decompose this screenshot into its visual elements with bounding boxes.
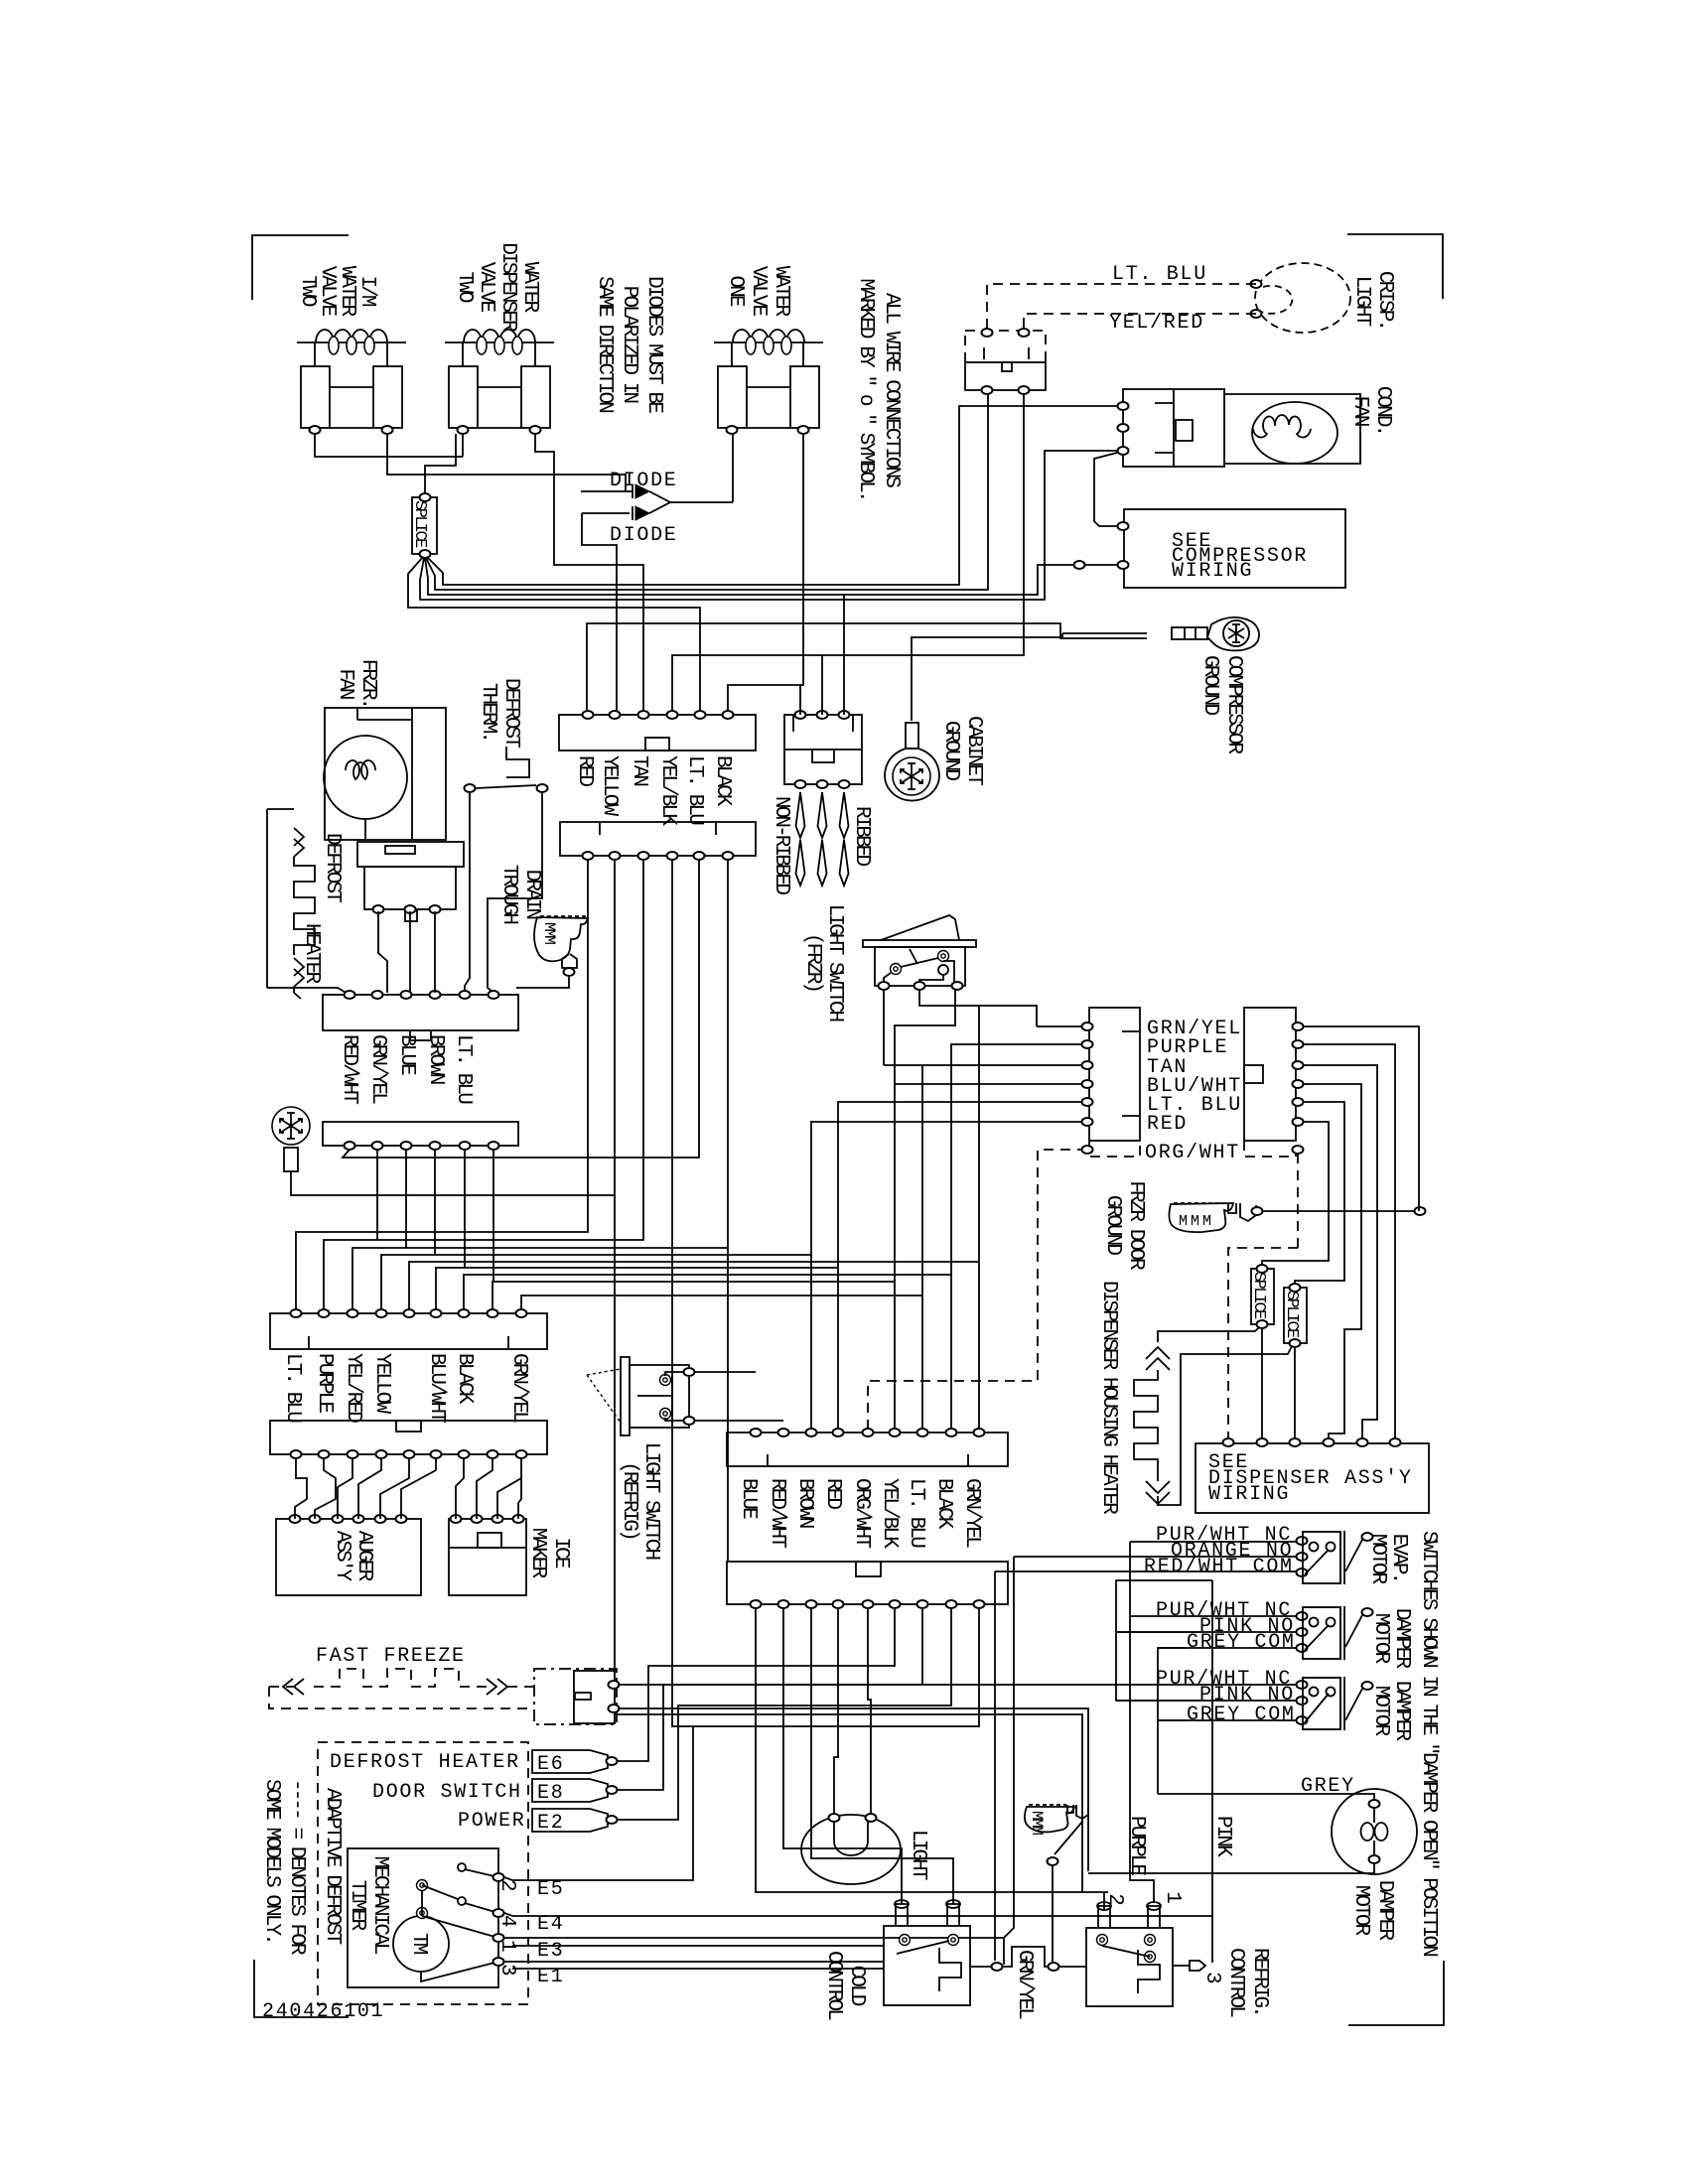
wires refrig control stubs up bbox=[1130, 1685, 1154, 1902]
diode output junction bbox=[649, 491, 733, 513]
connector C1 upper box bbox=[559, 715, 756, 751]
valve V2 terminals bbox=[458, 426, 469, 434]
svg-text:BLU/WHT: BLU/WHT bbox=[425, 1353, 448, 1423]
svg-text:YEL/BLK: YEL/BLK bbox=[878, 1478, 901, 1549]
refrig light switch symbol bbox=[587, 1357, 695, 1435]
auger assy box bbox=[276, 1519, 421, 1595]
wire GREY run bbox=[1158, 1794, 1374, 1804]
crisper connector body bbox=[965, 362, 1046, 390]
svg-text:RED/WHT: RED/WHT bbox=[338, 1034, 360, 1104]
wire sw left columns bbox=[1004, 1557, 1014, 1965]
heater chevrons bottom bbox=[1146, 1481, 1170, 1504]
wire PURPLE row bbox=[1303, 1044, 1395, 1439]
svg-text:DEFROSTTHERM.: DEFROSTTHERM. bbox=[477, 678, 522, 748]
wire relay t2 run bbox=[618, 1708, 1088, 1871]
wire E3 aux run bbox=[512, 1945, 884, 1947]
valve V2 body bbox=[463, 342, 535, 366]
wire splice2 to dispenser housing heater bbox=[1158, 1327, 1259, 1342]
svg-text:MMM: MMM bbox=[540, 922, 558, 944]
connector C6 box bbox=[270, 1421, 547, 1454]
svg-text:MMM: MMM bbox=[1179, 1213, 1214, 1230]
ground screw at strip bbox=[272, 1107, 310, 1145]
svg-text:GRN/YEL: GRN/YEL bbox=[507, 1353, 530, 1423]
svg-text:DEFROST HEATER: DEFROST HEATER bbox=[330, 1751, 520, 1774]
wire E2 run bbox=[618, 1608, 951, 1820]
wire E1 aux run bbox=[512, 1968, 884, 1970]
wire C1 lower pin2 ground bus bbox=[614, 860, 616, 1671]
svg-text:POWER: POWER bbox=[458, 1810, 526, 1833]
wire valve3R branch to C1 pin6 bbox=[728, 586, 803, 712]
svg-text:DAMPERMOTOR: DAMPERMOTOR bbox=[1369, 1681, 1413, 1742]
wire frzr switch drops bbox=[884, 989, 1037, 1084]
wire defrost therm to strip bbox=[465, 792, 542, 993]
wire diode output to valve3-left bbox=[732, 434, 734, 502]
spade E2 bbox=[532, 1809, 608, 1832]
freezer light switch symbol bbox=[863, 915, 976, 990]
wire BLU/WHT row bbox=[1303, 1084, 1361, 1439]
svg-text:YEL/RED: YEL/RED bbox=[342, 1353, 364, 1423]
svg-text:BLACK: BLACK bbox=[453, 1353, 476, 1405]
wire bus into connector C2 pins bbox=[800, 595, 844, 715]
svg-text:DEFROST: DEFROST bbox=[321, 833, 344, 902]
svg-text:LT. BLU: LT. BLU bbox=[905, 1478, 927, 1548]
defrost heater element bbox=[267, 809, 294, 988]
svg-text:YELLOW: YELLOW bbox=[370, 1353, 393, 1415]
wire splice fan B bbox=[426, 389, 988, 590]
strip connector upper box bbox=[323, 995, 518, 1030]
svg-text:DAMPERMOTOR: DAMPERMOTOR bbox=[1369, 1608, 1413, 1670]
svg-text:DRAINTROUGH: DRAINTROUGH bbox=[497, 865, 543, 924]
svg-text:BLUE: BLUE bbox=[737, 1478, 760, 1519]
dashed ORG/WHT left run bbox=[868, 1150, 1087, 1430]
svg-text:E5: E5 bbox=[537, 1878, 564, 1901]
wire b2 to cold control 1 bbox=[783, 1608, 902, 1904]
crisper connector dashed box bbox=[965, 331, 1046, 362]
svg-text:ORG/WHT: ORG/WHT bbox=[1145, 1142, 1240, 1164]
wire E5 run bbox=[504, 1608, 979, 1880]
wire relay t1 run bbox=[618, 1684, 1130, 1686]
svg-text:RED: RED bbox=[821, 1478, 844, 1509]
svg-text:DIODES MUST BEPOLARIZED INSAME: DIODES MUST BEPOLARIZED INSAME DIRECTION bbox=[593, 276, 665, 413]
wire 9pin t8 run bbox=[492, 1282, 895, 1310]
svg-text:CABINETGROUND: CABINETGROUND bbox=[939, 716, 985, 785]
svg-text:DISPENSER HOUSING HEATER: DISPENSER HOUSING HEATER bbox=[1097, 1281, 1120, 1515]
svg-text:TM: TM bbox=[407, 1933, 430, 1955]
svg-text:TAN: TAN bbox=[628, 755, 650, 785]
drain trough heater MMM bbox=[534, 916, 588, 976]
border corner mark top-right bbox=[1347, 234, 1443, 299]
wire strip2 pins drop to band bbox=[377, 1150, 493, 1282]
svg-text:YELLOW: YELLOW bbox=[598, 755, 621, 817]
wire heater bottom to strip1 t1 bbox=[267, 988, 350, 995]
junction circle on compressor wire bbox=[1074, 561, 1085, 569]
svg-text:RED/WHT: RED/WHT bbox=[766, 1478, 788, 1548]
compressor ground ring terminal bbox=[1172, 617, 1259, 650]
damper motor coil bbox=[1332, 1789, 1417, 1874]
wire 9pin t9 run bbox=[521, 1296, 922, 1310]
wire C1 lower pin6 to 9pin t3 bbox=[352, 860, 728, 1562]
wires C6 to auger and ice maker bbox=[295, 1458, 307, 1519]
svg-text:RED: RED bbox=[1147, 1113, 1188, 1136]
wire E3 run bbox=[504, 1937, 1004, 1939]
wire C1 lower pin3 to 9pin t2 bbox=[324, 860, 643, 1310]
svg-text:BLACK: BLACK bbox=[711, 755, 734, 807]
svg-text:GRN/YEL: GRN/YEL bbox=[1013, 1950, 1036, 2019]
wire splice fan D bbox=[420, 451, 1120, 600]
svg-text:LT. BLU: LT. BLU bbox=[1112, 263, 1207, 286]
svg-text:RED: RED bbox=[573, 755, 596, 786]
right door box bbox=[1244, 1008, 1296, 1141]
svg-text:BLUE: BLUE bbox=[395, 1034, 418, 1075]
svg-text:E2: E2 bbox=[537, 1812, 564, 1835]
wire splice fan E bbox=[408, 557, 700, 712]
dashed ADAPTIVE DEFROST box bbox=[318, 1742, 528, 2004]
svg-text:GREY: GREY bbox=[1301, 1775, 1355, 1798]
freezer fan body bbox=[364, 867, 456, 909]
svg-text:CRISP.LIGHT: CRISP.LIGHT bbox=[1350, 271, 1396, 329]
svg-text:GRN/YEL: GRN/YEL bbox=[366, 1034, 389, 1104]
splice S1 box bbox=[412, 497, 437, 554]
connector C3 box bbox=[727, 1433, 1008, 1466]
svg-text:LT. BLU: LT. BLU bbox=[683, 755, 706, 825]
timer motor TM bbox=[393, 1916, 449, 1972]
ice maker box bbox=[449, 1519, 526, 1595]
wire b4 to light L bbox=[834, 1608, 838, 1814]
wire dashed LT.BLU crisper bbox=[987, 284, 1256, 333]
fast freeze dashed element bbox=[269, 1669, 534, 1687]
svg-text:GREY COM: GREY COM bbox=[1187, 1631, 1296, 1654]
freezer fan box bbox=[325, 708, 446, 840]
svg-text:SPLICE: SPLICE bbox=[1249, 1272, 1268, 1319]
refrig control box bbox=[1086, 1928, 1173, 2006]
cond fan connector box bbox=[1123, 389, 1224, 467]
wire valve1-right to diode D1 bbox=[387, 434, 633, 491]
ribbed wire arrows bbox=[796, 792, 849, 886]
wire E4 run bbox=[504, 1913, 1212, 1916]
svg-text:BROWN: BROWN bbox=[424, 1034, 447, 1084]
valve V2 coil bbox=[445, 341, 554, 343]
wire E6 run bbox=[618, 1608, 895, 1761]
svg-text:REFRIG.CONTROL: REFRIG.CONTROL bbox=[1224, 1948, 1271, 2017]
wire RED row to splice2 bbox=[1262, 1122, 1329, 1266]
wire b1 to refrig control 2 bbox=[756, 1608, 1108, 1911]
dashed ORG/WHT right run bbox=[1228, 1154, 1298, 1439]
wire crisper-R return to connector C1 pin4 bbox=[672, 389, 1024, 712]
valve V1 terminals bbox=[310, 426, 321, 434]
svg-text:MMM: MMM bbox=[1028, 1811, 1046, 1835]
wire relay t2 aux run bbox=[617, 1714, 1082, 1892]
valve V3 body bbox=[732, 342, 803, 366]
wire splice-top to valve2-left bbox=[425, 434, 456, 493]
svg-text:E3: E3 bbox=[537, 1940, 564, 1963]
svg-text:EVAP.MOTOR: EVAP.MOTOR bbox=[1366, 1534, 1410, 1585]
wire splice fan A bbox=[427, 406, 1120, 585]
wire GRN/YEL row to ground junction bbox=[1303, 1026, 1419, 1211]
svg-text:DIODE: DIODE bbox=[610, 524, 678, 547]
svg-text:LT. BLU: LT. BLU bbox=[281, 1353, 304, 1423]
svg-text:YEL/RED: YEL/RED bbox=[1109, 312, 1204, 335]
svg-text:LIGHT: LIGHT bbox=[907, 1830, 929, 1880]
heater element bbox=[1134, 1370, 1158, 1469]
svg-text:ADAPTIVE DEFROST: ADAPTIVE DEFROST bbox=[321, 1788, 344, 1945]
wires freezer fan to strip bbox=[378, 911, 435, 993]
freezer fan motor circle bbox=[324, 736, 407, 819]
wire valve2-right to connector C1 pin3 bbox=[535, 434, 643, 712]
wire dashed YEL/RED crisper bbox=[1024, 314, 1256, 333]
fast freeze relay box bbox=[534, 1669, 617, 1724]
wire left box rows to connector C3 bbox=[811, 1006, 1087, 1430]
refrig right terminal 3 bbox=[1173, 1965, 1190, 1967]
connector C5 box bbox=[270, 1313, 547, 1349]
diode D1 bbox=[581, 484, 633, 498]
svg-text:PURPLE: PURPLE bbox=[313, 1353, 336, 1414]
svg-text:RED/WHT COM: RED/WHT COM bbox=[1144, 1556, 1294, 1578]
wire diode D2 to connector C1 pin2 bbox=[582, 513, 617, 712]
wire cold control out bbox=[970, 1947, 1086, 1967]
svg-text:AUGERASS'Y: AUGERASS'Y bbox=[331, 1531, 375, 1582]
wire drain trough down bbox=[516, 976, 569, 988]
svg-text:SWITCHES SHOWN IN THE "DAMPER: SWITCHES SHOWN IN THE "DAMPER OPEN" POSI… bbox=[1417, 1531, 1440, 1956]
cold control box bbox=[884, 1926, 970, 2005]
wire frzr door ground to GRN/YEL column bbox=[1263, 1210, 1420, 1212]
svg-text:BROWN: BROWN bbox=[793, 1478, 816, 1528]
wire splice2 down to dispenser t2 bbox=[1261, 1328, 1263, 1439]
svg-text:DOOR SWITCH: DOOR SWITCH bbox=[372, 1781, 522, 1804]
wire E1 run bbox=[504, 1961, 884, 1963]
svg-text:DAMPERMOTOR: DAMPERMOTOR bbox=[1349, 1880, 1396, 1942]
wire 9pin t5 run bbox=[409, 1262, 979, 1310]
left door box bbox=[1089, 1008, 1140, 1141]
svg-text:GRN/YEL: GRN/YEL bbox=[960, 1478, 983, 1548]
wire b3 to cold control 2 bbox=[811, 1608, 953, 1904]
valve V1 coil bbox=[297, 341, 406, 343]
wire PUR/WHT bus link bbox=[1129, 1542, 1131, 1685]
svg-text:PINK: PINK bbox=[1211, 1816, 1234, 1857]
svg-text:NON-RIBBED: NON-RIBBED bbox=[770, 796, 792, 894]
border corner mark bottom-right bbox=[1348, 1961, 1444, 2025]
switch SW1 evap motor bbox=[995, 1531, 1373, 1584]
wire b5 to light R bbox=[868, 1608, 871, 1814]
wire C1 lower pin5 to strip2 t1 bbox=[343, 860, 699, 1158]
wire valve3-right down to bus bbox=[802, 434, 804, 585]
wire splice fan C bbox=[425, 558, 1120, 595]
splice S3 bbox=[1284, 1288, 1307, 1343]
frzr door ground MMM bbox=[1169, 1203, 1262, 1232]
wire 9pin t7 run bbox=[464, 1275, 951, 1310]
wire LT. BLU row to splice3 bbox=[1295, 1102, 1344, 1285]
wire C1 lower pin4 to 9pin t4 bbox=[381, 860, 811, 1726]
wire splice3 down to dispenser t3 bbox=[1294, 1347, 1296, 1439]
wire TAN row bbox=[1303, 1065, 1377, 1439]
heater chevrons top bbox=[1146, 1347, 1170, 1370]
cabinet ground symbol bbox=[885, 723, 939, 800]
cond fan motor housing bbox=[1224, 394, 1360, 464]
freezer fan flange bbox=[357, 842, 464, 867]
svg-text:GREY COM: GREY COM bbox=[1187, 1704, 1296, 1726]
svg-text:E6: E6 bbox=[537, 1753, 564, 1776]
wire E8 run bbox=[618, 1608, 922, 1790]
svg-text:FAST FREEZE: FAST FREEZE bbox=[316, 1645, 466, 1668]
svg-text:BLACK: BLACK bbox=[932, 1478, 955, 1530]
svg-text:SPLICE: SPLICE bbox=[1282, 1291, 1301, 1338]
wire cond-fan t3 to compressor t1 bbox=[1094, 453, 1120, 526]
cond fan motor coil bbox=[1252, 402, 1337, 464]
valve V3 terminals bbox=[727, 426, 738, 434]
wire C1 lower pin1 to 9pin t1 bbox=[296, 860, 588, 1310]
wire damper motor bottom to purple/relay column bbox=[1088, 1863, 1374, 1873]
valve V1 body bbox=[315, 342, 387, 366]
valve V3 coil bbox=[714, 341, 823, 343]
wire pink column bbox=[1116, 1580, 1212, 1632]
splice S2 bbox=[1251, 1269, 1274, 1324]
wire connector C1 pin1 up to ground bus bbox=[587, 623, 1147, 712]
svg-text:WIRING: WIRING bbox=[1172, 560, 1253, 583]
wires refrig light switch bbox=[694, 1372, 783, 1421]
connector C1 lower box bbox=[560, 822, 756, 856]
svg-text:LT. BLU: LT. BLU bbox=[452, 1034, 475, 1104]
wire MMM3 to grn/yel bbox=[1052, 1865, 1054, 1963]
switch SW3 damper bbox=[1116, 1677, 1373, 1730]
svg-text:WIRING: WIRING bbox=[1208, 1483, 1290, 1506]
svg-text:PURPLE: PURPLE bbox=[1125, 1816, 1148, 1876]
svg-text:SPLICE: SPLICE bbox=[410, 500, 429, 548]
diode D2 bbox=[582, 506, 633, 520]
defrost thermostat symbol bbox=[506, 747, 529, 777]
connector C4 box bbox=[727, 1562, 1008, 1604]
svg-text:RIBBED: RIBBED bbox=[850, 806, 873, 867]
light bulb bbox=[801, 1815, 901, 1884]
MMM door gasket 3 bbox=[1025, 1805, 1088, 1865]
crisper bulb bbox=[1255, 263, 1350, 333]
spade E6 bbox=[532, 1750, 608, 1773]
SEE COMPRESSOR WIRING box bbox=[1124, 509, 1345, 588]
border corner mark top-left bbox=[252, 235, 349, 300]
svg-text:YEL/BLK: YEL/BLK bbox=[656, 755, 679, 826]
spade E8 bbox=[532, 1779, 608, 1802]
wire 9pin t6 run bbox=[436, 1268, 838, 1310]
timer pin terminals bbox=[493, 1873, 504, 1881]
timer box bbox=[348, 1848, 498, 1987]
wire valve1-left to valve2-left common bbox=[315, 434, 463, 457]
svg-text:E8: E8 bbox=[537, 1782, 564, 1805]
wire splice3 to heater return bbox=[1157, 1346, 1292, 1505]
SEE DISPENSER ASS'Y WIRING box bbox=[1196, 1443, 1429, 1513]
strip connector lower box bbox=[323, 1122, 518, 1146]
switch SW2 damper bbox=[1116, 1606, 1373, 1660]
svg-text:HEATER: HEATER bbox=[300, 923, 323, 985]
connector C2 box bbox=[784, 715, 862, 784]
svg-text:ORG/WHT: ORG/WHT bbox=[850, 1478, 873, 1548]
wire cabinet ground to compressor ground lug bbox=[912, 633, 1147, 721]
border corner mark bottom-left bbox=[254, 1960, 349, 2017]
